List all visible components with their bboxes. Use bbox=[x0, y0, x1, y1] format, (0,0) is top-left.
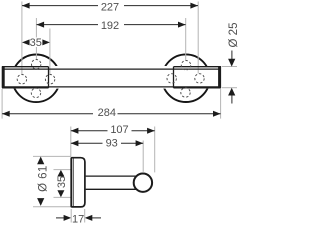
svg-text:93: 93 bbox=[106, 138, 118, 150]
svg-text:17: 17 bbox=[72, 213, 84, 225]
svg-text:35: 35 bbox=[56, 176, 68, 188]
svg-text:192: 192 bbox=[101, 20, 119, 32]
svg-text:284: 284 bbox=[98, 107, 116, 119]
svg-text:107: 107 bbox=[110, 124, 128, 136]
svg-text:Ø 61: Ø 61 bbox=[38, 165, 50, 192]
svg-text:35: 35 bbox=[30, 37, 42, 49]
svg-text:Ø 25: Ø 25 bbox=[228, 23, 240, 48]
svg-text:227: 227 bbox=[101, 2, 119, 14]
